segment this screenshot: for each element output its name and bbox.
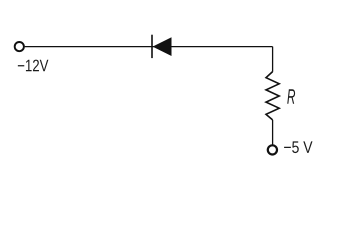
wire resistor to -5V terminal xyxy=(272,120,274,145)
label -5 V xyxy=(284,141,312,153)
diode D1 cathode bar xyxy=(151,35,153,58)
wire from -12V terminal to corner xyxy=(25,46,273,48)
diode D1 triangle xyxy=(153,37,172,56)
terminal -5V xyxy=(268,145,277,154)
terminal -12V xyxy=(15,42,24,51)
label R xyxy=(287,89,295,103)
label -12V xyxy=(18,60,49,72)
wire vertical segment corner to resistor xyxy=(272,47,274,72)
resistor R xyxy=(266,72,279,120)
